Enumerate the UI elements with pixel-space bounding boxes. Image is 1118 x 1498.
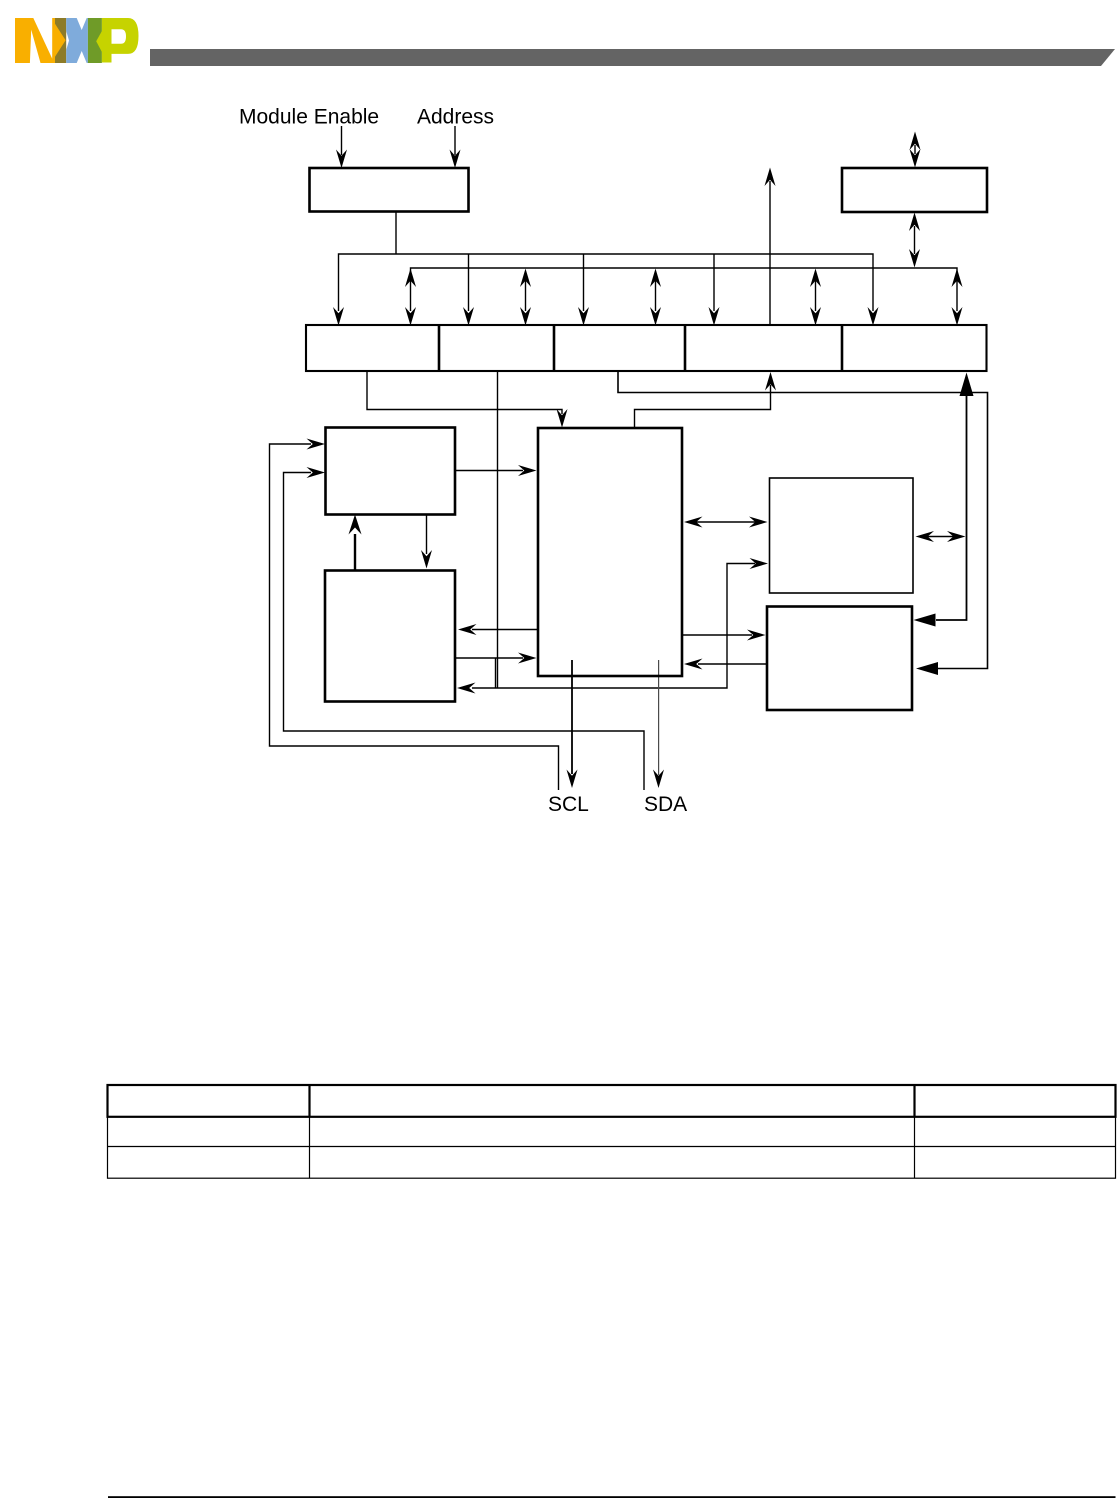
arrowhead: left into start/stop (y629) xyxy=(458,624,477,635)
table body divider col2 xyxy=(914,1117,916,1178)
footer rule xyxy=(108,1496,1116,1498)
wire: interrupt line up xyxy=(769,181,771,326)
wire c: reg3 down-right to address compare net xyxy=(618,371,988,669)
wire: top box to bus1 xyxy=(395,212,397,255)
wire: bus2 bidir 4 xyxy=(815,280,817,311)
wire: upper-right/vertical bidir xyxy=(927,536,954,538)
arrowheads: data mux upper bidir xyxy=(910,132,921,151)
table header divider col2 xyxy=(913,1085,915,1117)
bus2 horizontal xyxy=(411,268,958,311)
wire: SDA feedback riser xyxy=(284,473,645,791)
wire: start/stop to shift reg (right arrow) xyxy=(455,657,523,659)
arrowhead: wire a down into shift register xyxy=(557,409,568,428)
arrowhead: up between boxes (start/stop to input sync) xyxy=(349,515,362,535)
table header divider col1 xyxy=(308,1085,310,1117)
svg-text:Address: Address xyxy=(417,106,494,129)
arrowhead: wire b up into register row xyxy=(765,372,776,391)
svg-text:SCL: SCL xyxy=(548,793,589,816)
arrowhead: down between boxes (input sync to start/stop) xyxy=(421,550,432,569)
arrowhead: Module Enable down xyxy=(336,150,347,169)
register row divider 3 xyxy=(684,325,687,371)
arrowhead: input sync to shift register right xyxy=(518,465,537,476)
wire: bus1 drop 3 xyxy=(583,254,585,311)
wire: bus1 drop 2 xyxy=(468,254,470,311)
arrowheads: center/upper-right bidir xyxy=(684,517,703,528)
logo letter P (lime) with chevron xyxy=(96,18,138,63)
arrowhead: net3 left into lower-left box xyxy=(457,683,476,694)
wire: center register vertical xyxy=(497,371,499,688)
arrowhead: left into center box (y664) xyxy=(684,659,703,670)
wire: net3 horizontal into lower-left box xyxy=(472,564,755,689)
wire: bus2 bidir 2 xyxy=(525,280,527,311)
wire: SDA drop xyxy=(658,660,660,775)
svg-text:Module Enable: Module Enable xyxy=(239,106,379,129)
wire: bus1 drop 4 xyxy=(713,254,715,311)
register row divider 4 xyxy=(841,325,844,371)
arrowhead: SDA down xyxy=(653,770,664,789)
arrowheads: data mux lower bidir xyxy=(909,213,920,232)
wire: shift reg to start/stop (left arrow) xyxy=(472,629,538,631)
svg-text:SDA: SDA xyxy=(644,793,687,816)
table header row (thick) xyxy=(108,1085,1116,1117)
block: lower-right box xyxy=(767,607,912,711)
arrowhead: right into shift reg (y658) xyxy=(518,653,537,664)
arrowhead: Address down xyxy=(450,150,461,169)
arrowheads: bus2 bidir up xyxy=(405,269,416,288)
arrowheads: upper-right/vertical bidir xyxy=(916,531,935,542)
wire a: reg1 to shift register top xyxy=(367,371,562,414)
arrowhead: big up triangle into register row xyxy=(960,373,974,397)
bus1 horizontal xyxy=(339,254,874,311)
logo letter N (orange) xyxy=(15,18,66,63)
wire: SCL drop xyxy=(571,660,573,774)
block: register row xyxy=(306,325,987,371)
register row divider 2 xyxy=(553,325,556,371)
arrowhead: thick left into lower-right box (upper) xyxy=(914,614,936,627)
wire: SCL feedback riser xyxy=(270,444,559,790)
arrowheads: bus2 bidir down xyxy=(405,307,416,326)
arrowhead: SDA feedback into input sync xyxy=(307,467,326,478)
wire: lower-right box to center xyxy=(698,663,767,665)
wire: down arrow input sync to start/stop box xyxy=(426,515,428,555)
arrowhead: thick left into lower-right box (lower) xyxy=(916,662,938,675)
block: input sync box xyxy=(326,428,456,515)
block: upper-right box (address compare) xyxy=(770,478,914,593)
gray header bar xyxy=(150,49,1115,66)
wire: Module Enable into top box xyxy=(341,126,343,155)
logo letter X (blue) xyxy=(66,18,88,63)
wire: center/upper-right bidir xyxy=(696,521,756,523)
table outer xyxy=(108,1085,1116,1178)
arrowhead: interrupt up xyxy=(765,168,776,187)
arrowhead: net3 right into upper-right box xyxy=(750,558,769,569)
block: start/stop/arbitration box xyxy=(325,571,455,702)
arrowhead: SCL feedback into input sync xyxy=(307,439,326,450)
arrowhead: SCL down xyxy=(567,770,578,789)
logo olive band (N/X overlap) xyxy=(54,18,66,63)
logo green band (X/P overlap) xyxy=(88,18,102,63)
wire b: shift register top to reg4 xyxy=(635,385,771,428)
arrowhead: right into lower-right box (y635) xyxy=(747,630,766,641)
NXP logo xyxy=(15,18,139,63)
block: in/out data shift register box xyxy=(538,428,682,676)
table body divider col1 xyxy=(309,1117,311,1178)
thick up arrow shaft between boxes xyxy=(354,534,356,570)
block: data mux box xyxy=(842,168,987,212)
table row line xyxy=(108,1146,1116,1148)
wire: big-up-arrow shaft with branch to box xyxy=(936,396,967,620)
wire: center to lower-right box xyxy=(682,634,752,636)
wire: data mux lower bidir xyxy=(914,226,916,254)
wire: branch down from y658 line xyxy=(495,658,497,688)
wire: data mux upper bidir xyxy=(914,145,916,154)
block: top box (addr decode) xyxy=(310,168,469,212)
wire: Address into top box xyxy=(454,126,456,155)
register row divider 1 xyxy=(438,325,441,371)
wire: bus2 bidir 3 xyxy=(655,280,657,311)
wire: input sync to shift register xyxy=(455,470,523,472)
arrowheads: bus1 singles down xyxy=(333,307,344,326)
